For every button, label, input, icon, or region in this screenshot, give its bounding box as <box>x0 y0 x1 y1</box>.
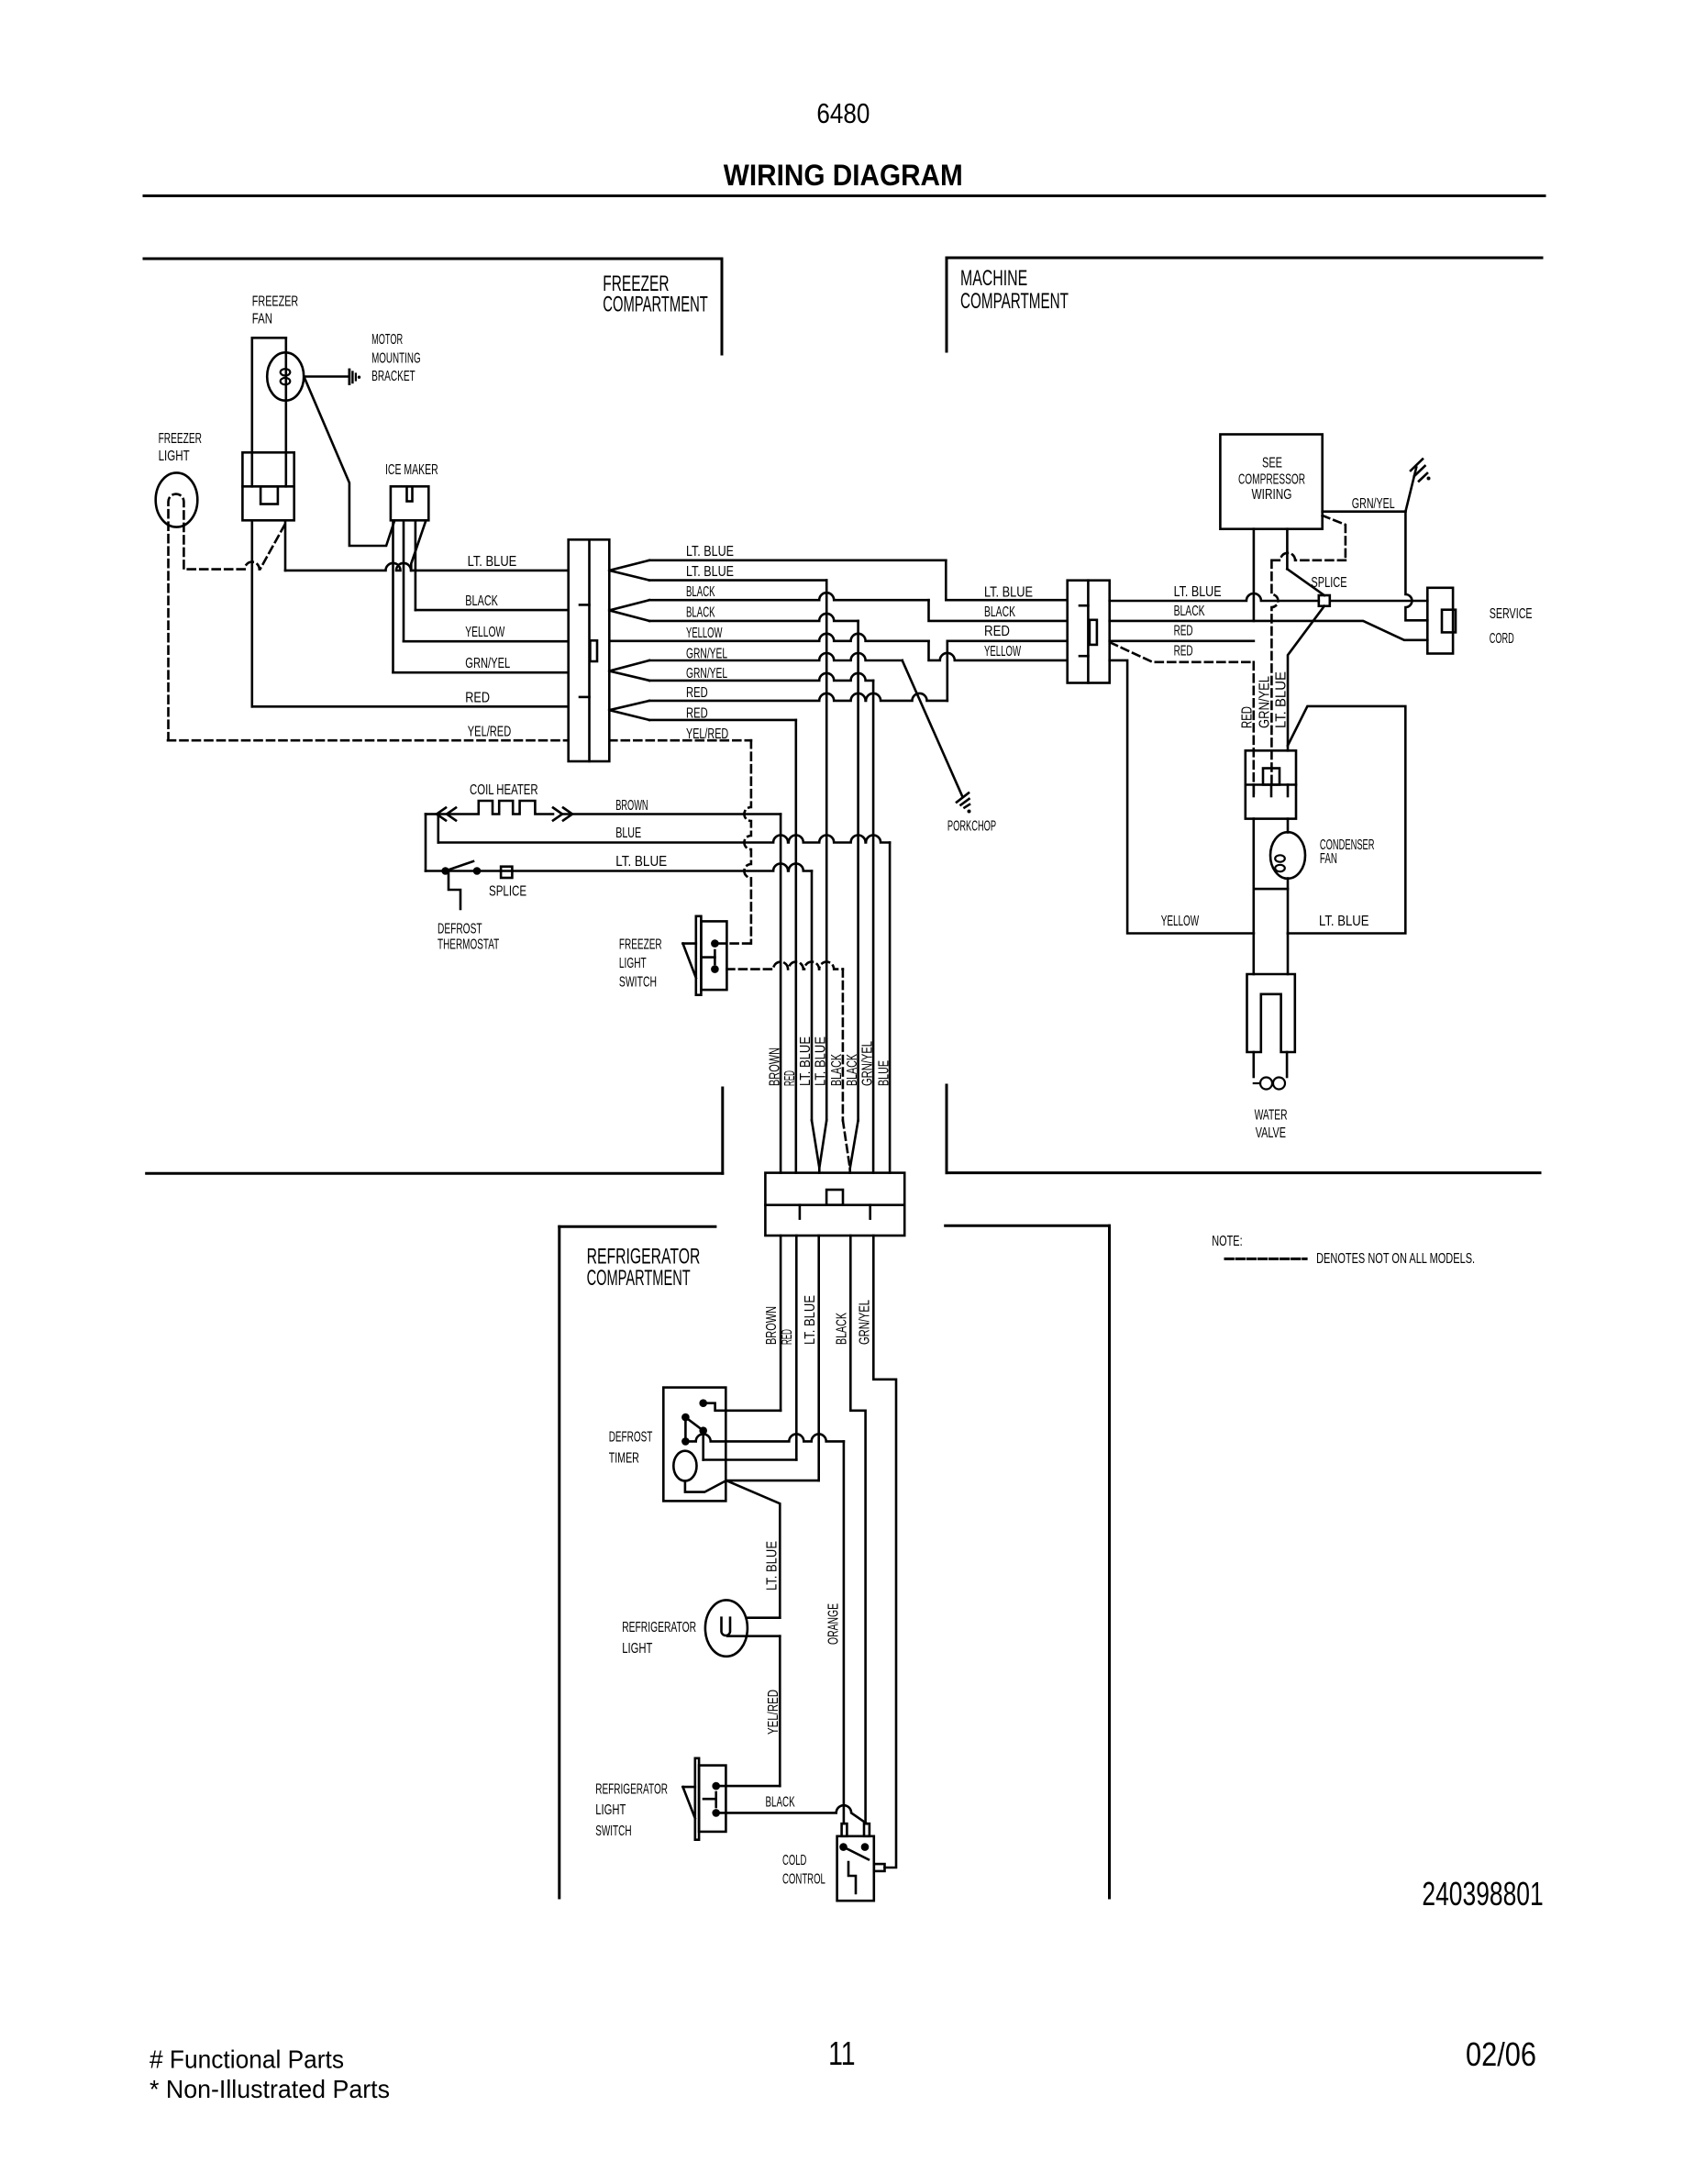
svg-text:WIRING DIAGRAM: WIRING DIAGRAM <box>724 159 963 192</box>
svg-text:DEFROST: DEFROST <box>438 921 482 937</box>
svg-text:BLACK: BLACK <box>686 604 715 620</box>
svg-text:WATER: WATER <box>1255 1107 1288 1123</box>
svg-text:ORANGE: ORANGE <box>826 1603 842 1645</box>
svg-text:BROWN: BROWN <box>764 1306 780 1345</box>
svg-text:VALVE: VALVE <box>1256 1125 1286 1141</box>
svg-text:LT. BLUE: LT. BLUE <box>1319 914 1369 929</box>
svg-text:* Non-Illustrated Parts: * Non-Illustrated Parts <box>150 2075 390 2103</box>
svg-text:RED: RED <box>782 1070 798 1086</box>
svg-text:GRN/YEL: GRN/YEL <box>465 656 510 671</box>
svg-text:FAN: FAN <box>252 312 272 327</box>
svg-text:SPLICE: SPLICE <box>489 883 526 899</box>
svg-text:YELLOW: YELLOW <box>686 626 723 641</box>
svg-text:LT. BLUE: LT. BLUE <box>765 1541 781 1591</box>
svg-text:BLACK: BLACK <box>1174 604 1205 619</box>
svg-text:MOTOR: MOTOR <box>371 332 403 348</box>
svg-text:6480: 6480 <box>816 97 870 129</box>
svg-text:BLACK: BLACK <box>835 1313 850 1345</box>
svg-text:LIGHT: LIGHT <box>595 1802 626 1818</box>
svg-text:FREEZER: FREEZER <box>159 431 202 447</box>
svg-text:02/06: 02/06 <box>1466 2035 1536 2073</box>
svg-text:BLUE: BLUE <box>876 1060 892 1086</box>
svg-text:11: 11 <box>828 2034 856 2072</box>
svg-text:MOUNTING: MOUNTING <box>371 351 421 367</box>
svg-text:RED: RED <box>686 685 708 701</box>
svg-text:COIL HEATER: COIL HEATER <box>470 782 538 798</box>
svg-text:YEL/RED: YEL/RED <box>766 1690 781 1735</box>
svg-text:SERVICE: SERVICE <box>1490 606 1533 622</box>
svg-text:REFRIGERATOR: REFRIGERATOR <box>622 1620 696 1635</box>
svg-text:COMPARTMENT: COMPARTMENT <box>587 1266 691 1291</box>
svg-text:LT. BLUE: LT. BLUE <box>468 554 517 570</box>
svg-text:COMPARTMENT: COMPARTMENT <box>603 293 708 317</box>
svg-text:RED: RED <box>984 624 1010 639</box>
svg-text:PORKCHOP: PORKCHOP <box>947 819 996 835</box>
svg-text:GRN/YEL: GRN/YEL <box>686 666 727 682</box>
svg-text:BLUE: BLUE <box>615 826 641 841</box>
svg-text:BLACK: BLACK <box>829 1054 845 1086</box>
svg-text:FAN: FAN <box>1320 851 1337 867</box>
svg-text:SWITCH: SWITCH <box>619 974 657 990</box>
svg-text:DEFROST: DEFROST <box>609 1430 653 1446</box>
svg-text:CONTROL: CONTROL <box>782 1872 825 1888</box>
svg-text:LIGHT: LIGHT <box>622 1641 652 1657</box>
svg-text:YELLOW: YELLOW <box>984 644 1022 660</box>
svg-text:GRN/YEL: GRN/YEL <box>859 1041 875 1086</box>
svg-text:BLACK: BLACK <box>984 604 1015 620</box>
svg-text:LT. BLUE: LT. BLUE <box>615 854 667 870</box>
svg-text:BLACK: BLACK <box>686 584 715 600</box>
svg-text:LT. BLUE: LT. BLUE <box>803 1295 818 1345</box>
svg-text:YELLOW: YELLOW <box>465 625 505 640</box>
svg-text:COMPARTMENT: COMPARTMENT <box>960 289 1069 314</box>
svg-text:BROWN: BROWN <box>767 1048 782 1086</box>
svg-text:ICE MAKER: ICE MAKER <box>385 462 438 478</box>
svg-text:LIGHT: LIGHT <box>619 956 647 971</box>
svg-text:SPLICE: SPLICE <box>1311 575 1346 591</box>
svg-text:NOTE:: NOTE: <box>1212 1234 1242 1249</box>
svg-text:RED: RED <box>780 1329 795 1345</box>
svg-text:FREEZER: FREEZER <box>252 294 298 309</box>
svg-text:GRN/YEL: GRN/YEL <box>686 646 727 661</box>
svg-text:BROWN: BROWN <box>615 798 648 814</box>
svg-text:WIRING: WIRING <box>1252 487 1292 503</box>
svg-text:RED: RED <box>1240 706 1256 728</box>
svg-text:YEL/RED: YEL/RED <box>686 726 728 742</box>
svg-text:FREEZER: FREEZER <box>619 937 662 952</box>
svg-text:LT. BLUE: LT. BLUE <box>686 544 734 560</box>
svg-text:YEL/RED: YEL/RED <box>468 725 511 740</box>
svg-text:TIMER: TIMER <box>609 1451 639 1467</box>
svg-text:LT. BLUE: LT. BLUE <box>984 584 1033 600</box>
svg-text:GRN/YEL: GRN/YEL <box>858 1300 873 1345</box>
svg-text:BLACK: BLACK <box>766 1795 795 1811</box>
svg-text:LT. BLUE: LT. BLUE <box>798 1037 814 1086</box>
svg-text:LT. BLUE: LT. BLUE <box>686 564 734 580</box>
svg-text:RED: RED <box>686 706 708 722</box>
svg-text:RED: RED <box>1174 644 1193 660</box>
svg-text:GRN/YEL: GRN/YEL <box>1257 676 1273 728</box>
svg-text:# Functional Parts: # Functional Parts <box>150 2045 344 2073</box>
svg-text:240398801: 240398801 <box>1422 1875 1543 1912</box>
svg-text:GRN/YEL: GRN/YEL <box>1352 496 1395 512</box>
svg-text:LT. BLUE: LT. BLUE <box>1274 671 1290 728</box>
svg-text:BLACK: BLACK <box>465 593 498 609</box>
svg-text:LIGHT: LIGHT <box>159 449 190 464</box>
svg-text:COLD: COLD <box>782 1853 806 1868</box>
svg-text:YELLOW: YELLOW <box>1161 914 1200 929</box>
svg-text:SWITCH: SWITCH <box>595 1824 631 1839</box>
svg-text:SEE: SEE <box>1262 456 1282 471</box>
svg-text:THERMOSTAT: THERMOSTAT <box>438 937 499 952</box>
svg-text:REFRIGERATOR: REFRIGERATOR <box>595 1781 668 1797</box>
svg-text:DENOTES NOT ON ALL MODELS.: DENOTES NOT ON ALL MODELS. <box>1316 1251 1475 1267</box>
svg-text:CORD: CORD <box>1490 631 1514 647</box>
svg-text:COMPRESSOR: COMPRESSOR <box>1238 472 1305 488</box>
svg-text:RED: RED <box>1174 624 1193 639</box>
svg-text:MACHINE: MACHINE <box>960 266 1027 291</box>
svg-text:LT. BLUE: LT. BLUE <box>1174 584 1222 600</box>
svg-text:BRACKET: BRACKET <box>371 369 415 384</box>
svg-text:LT. BLUE: LT. BLUE <box>813 1037 828 1086</box>
svg-text:RED: RED <box>465 690 490 705</box>
svg-text:BLACK: BLACK <box>845 1054 860 1086</box>
